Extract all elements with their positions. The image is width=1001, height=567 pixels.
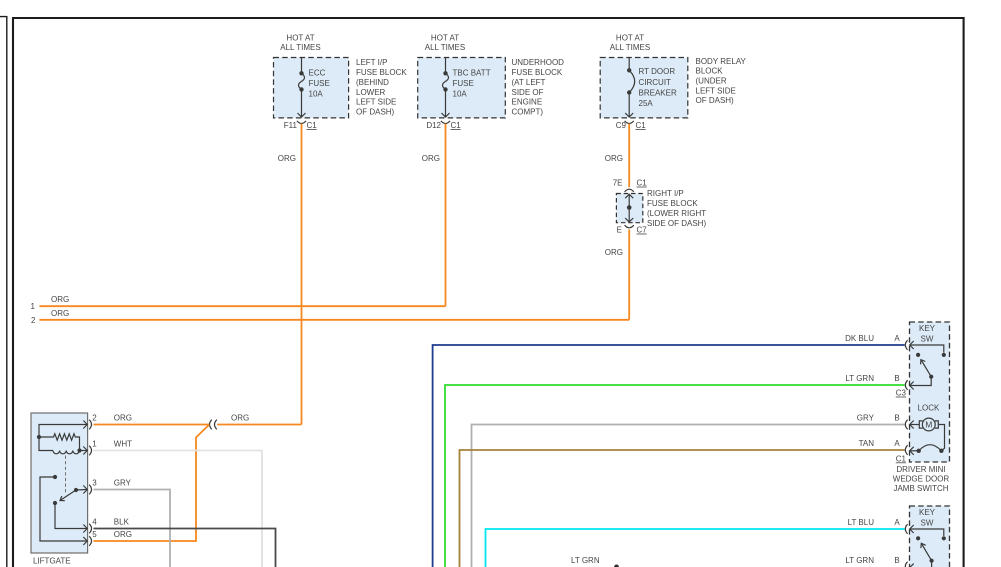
svg-text:ALL TIMES: ALL TIMES	[610, 43, 650, 52]
svg-text:DK BLU: DK BLU	[845, 334, 874, 343]
svg-text:3: 3	[92, 478, 97, 487]
liftgate switch: pin5 contact	[53, 475, 57, 479]
svg-text:2: 2	[92, 413, 97, 422]
svg-text:ORG: ORG	[605, 248, 623, 257]
svg-text:1: 1	[31, 302, 36, 311]
svg-text:ORG: ORG	[114, 413, 132, 422]
svg-text:C1: C1	[451, 121, 462, 130]
svg-text:ORG: ORG	[114, 530, 132, 539]
svg-text:DRIVER MINI: DRIVER MINI	[896, 465, 945, 474]
svg-text:FUSE BLOCK: FUSE BLOCK	[356, 68, 407, 77]
svg-text:B: B	[894, 374, 899, 383]
svg-text:HOT AT: HOT AT	[616, 33, 644, 42]
svg-text:C3: C3	[896, 389, 907, 398]
liftgate pin 3 connector (GRY)	[83, 486, 87, 494]
wire BLK liftgate pin 4	[94, 529, 276, 567]
wire ORG liftgate pin 2 to inline connector	[94, 424, 210, 426]
wire TAN to lock motor pin A	[460, 450, 905, 567]
circuit breaker RT DOOR CIRCUIT BREAKER 25A	[628, 58, 630, 71]
svg-text:LEFT SIDE: LEFT SIDE	[696, 86, 736, 95]
liftgate pin 5 connector (ORG)	[83, 537, 87, 545]
svg-text:HOT AT: HOT AT	[431, 33, 459, 42]
svg-text:COMPT): COMPT)	[512, 107, 544, 116]
key switch (lower) contacts and arm	[910, 529, 944, 536]
svg-text:10A: 10A	[309, 89, 324, 98]
svg-text:WEDGE DOOR: WEDGE DOOR	[893, 475, 950, 484]
svg-text:BLOCK: BLOCK	[696, 67, 724, 76]
svg-text:ALL TIMES: ALL TIMES	[425, 43, 465, 52]
svg-text:LOWER: LOWER	[356, 88, 386, 97]
component: LIFTGATE (box)	[31, 413, 88, 553]
svg-text:LOCK: LOCK	[918, 403, 940, 412]
svg-text:7E: 7E	[613, 179, 623, 188]
svg-text:WHT: WHT	[114, 439, 132, 448]
svg-text:TBC BATT: TBC BATT	[453, 69, 491, 78]
svg-text:JAMB SWITCH: JAMB SWITCH	[893, 484, 948, 493]
svg-text:ORG: ORG	[422, 154, 440, 163]
svg-text:LEFT SIDE: LEFT SIDE	[356, 98, 396, 107]
wire ORG branch to liftgate pin 5	[94, 425, 210, 542]
wire GRY liftgate pin 3	[94, 490, 171, 567]
svg-text:GRY: GRY	[114, 478, 132, 487]
connector C7 below right I/P fuse block, pin E	[625, 225, 634, 228]
svg-text:OF DASH): OF DASH)	[356, 107, 395, 116]
svg-text:10A: 10A	[453, 89, 468, 98]
lock motor M (driver)	[905, 420, 907, 430]
svg-text:LT GRN: LT GRN	[845, 374, 874, 383]
svg-text:A: A	[894, 334, 900, 343]
svg-text:M: M	[925, 420, 932, 430]
feed-through element inside right I/P fuse block	[625, 194, 633, 198]
wire ORG from F11/C1 down (crosses wires 1 and 2)	[301, 124, 303, 425]
svg-text:TAN: TAN	[859, 439, 875, 448]
liftgate pin 1 connector (WHT)	[83, 447, 87, 455]
svg-text:FUSE BLOCK: FUSE BLOCK	[512, 68, 563, 77]
svg-text:LT BLU: LT BLU	[848, 518, 875, 527]
svg-text:B: B	[894, 556, 899, 565]
svg-text:UNDERHOOD: UNDERHOOD	[512, 58, 565, 67]
liftgate pin 2 connector (ORG)	[83, 421, 87, 429]
lock motor commutator arc	[919, 445, 942, 451]
svg-text:A: A	[894, 518, 900, 527]
svg-text:1: 1	[92, 439, 97, 448]
wire ORG inline connector to F11 riser	[217, 424, 301, 426]
svg-text:ORG: ORG	[51, 295, 69, 304]
svg-text:C1: C1	[636, 121, 647, 130]
wire GRY to lock motor pin B	[472, 425, 905, 567]
lock motor pin A connector, C1	[905, 445, 907, 455]
wire ORG from C9/C1 down to right I/P fuse block	[628, 124, 630, 188]
svg-text:BODY RELAY: BODY RELAY	[696, 57, 747, 66]
svg-text:(UNDER: (UNDER	[696, 77, 727, 86]
fuse block: LEFT I/P FUSE BLOCK (dashed box)	[274, 58, 349, 118]
svg-text:HOT AT: HOT AT	[286, 33, 314, 42]
svg-text:CIRCUIT: CIRCUIT	[639, 78, 672, 87]
key switch (driver) pin A connector	[905, 340, 907, 350]
wire: outer page border stub (left, partially cropped)	[0, 16, 7, 567]
svg-text:(LOWER RIGHT: (LOWER RIGHT	[647, 209, 706, 218]
svg-text:B: B	[894, 413, 899, 422]
svg-text:KEY: KEY	[919, 324, 936, 333]
node: junction dot on bottom LT GRN wire	[614, 565, 619, 567]
liftgate pin 4 connector (BLK)	[83, 525, 87, 533]
svg-text:RT DOOR: RT DOOR	[639, 67, 676, 76]
svg-text:FUSE BLOCK: FUSE BLOCK	[647, 199, 698, 208]
svg-text:ENGINE: ENGINE	[512, 98, 543, 107]
wire ORG from E/C7 down to wire 2 corner	[628, 230, 630, 320]
key switch (driver) contacts and arm	[910, 345, 944, 353]
svg-text:LIFTGATE: LIFTGATE	[33, 557, 71, 566]
inline connector (double arc) on ORG wire	[210, 420, 212, 430]
svg-text:GRY: GRY	[857, 413, 875, 422]
wire to pin 1	[80, 450, 87, 452]
svg-text:C1: C1	[896, 454, 907, 463]
svg-text:LT GRN: LT GRN	[571, 556, 600, 565]
resistor (liftgate release relay coil shunt)	[39, 434, 80, 451]
svg-text:5: 5	[92, 530, 97, 539]
svg-text:ORG: ORG	[278, 154, 296, 163]
svg-text:C1: C1	[307, 121, 318, 130]
relay block: BODY RELAY BLOCK (dashed box)	[600, 58, 688, 118]
key switch (driver) pin B connector, C3	[905, 380, 907, 390]
solenoid coil (liftgate actuator)	[53, 451, 79, 454]
svg-text:BREAKER: BREAKER	[639, 88, 677, 97]
svg-text:2: 2	[31, 316, 36, 325]
svg-text:ORG: ORG	[51, 309, 69, 318]
fuse ECC FUSE 10A	[301, 58, 303, 74]
wire ORG from D12/C1 down to wire 1 corner	[445, 124, 447, 307]
svg-text:ORG: ORG	[231, 413, 249, 422]
wire DK BLU to key switch pin A	[433, 345, 905, 567]
svg-text:LT GRN: LT GRN	[845, 556, 874, 565]
svg-text:FUSE: FUSE	[453, 79, 474, 88]
fuse TBC BATT FUSE 10A	[445, 58, 447, 74]
wire LT BLU to lower key switch pin A	[486, 529, 905, 567]
key switch (lower) pin A connector	[905, 524, 907, 534]
fuse block: UNDERHOOD FUSE BLOCK (dashed box)	[418, 58, 506, 118]
component: lower door block (dashed box, cropped)	[910, 506, 950, 567]
svg-text:4: 4	[92, 517, 97, 526]
svg-text:ALL TIMES: ALL TIMES	[280, 43, 320, 52]
svg-text:SIDE OF: SIDE OF	[512, 88, 544, 97]
svg-text:FUSE: FUSE	[309, 79, 330, 88]
key switch (lower) pin B connector	[905, 562, 907, 567]
svg-text:ECC: ECC	[309, 69, 326, 78]
svg-text:(AT LEFT: (AT LEFT	[512, 78, 546, 87]
svg-text:ORG: ORG	[605, 154, 623, 163]
svg-text:SW: SW	[921, 519, 934, 528]
svg-text:F11: F11	[284, 121, 298, 130]
svg-text:LEFT I/P: LEFT I/P	[356, 58, 387, 67]
connector C1 below underhood fuse block, pin D12	[441, 121, 450, 124]
wire 2: ORG horizontal to E/C7 vertical	[39, 319, 629, 321]
wire LT GRN to key switch pin B	[445, 385, 905, 567]
liftgate switch: pin3 contact and arm	[74, 488, 78, 492]
svg-text:D12: D12	[426, 121, 441, 130]
svg-text:A: A	[894, 439, 900, 448]
liftgate switch: common to pin 4	[53, 501, 57, 505]
component: driver door block (dashed box)	[910, 322, 950, 462]
svg-text:SW: SW	[921, 335, 934, 344]
svg-text:BLK: BLK	[114, 517, 130, 526]
fuse block: RIGHT I/P FUSE BLOCK (small dashed box)	[616, 194, 642, 223]
mechanical link (dashed) from solenoid to switch	[65, 456, 67, 493]
wire WHT liftgate pin 1	[94, 451, 263, 567]
svg-text:25A: 25A	[639, 99, 654, 108]
connector C1 below body relay block, pin C9	[625, 121, 634, 124]
svg-text:E: E	[617, 226, 622, 235]
svg-text:C7: C7	[637, 226, 648, 235]
svg-text:OF DASH): OF DASH)	[696, 96, 735, 105]
svg-text:C1: C1	[637, 179, 648, 188]
connector C1 below left I/P fuse block, pin F11	[297, 121, 306, 124]
svg-text:KEY: KEY	[919, 508, 936, 517]
svg-text:SIDE OF DASH): SIDE OF DASH)	[647, 219, 706, 228]
liftgate inner wire pin2 to resistor/solenoid	[39, 425, 87, 451]
svg-text:(BEHIND: (BEHIND	[356, 78, 389, 87]
svg-text:C9: C9	[616, 121, 627, 130]
wire 1: ORG horizontal to D12 vertical	[39, 305, 445, 307]
svg-text:RIGHT I/P: RIGHT I/P	[647, 189, 684, 198]
